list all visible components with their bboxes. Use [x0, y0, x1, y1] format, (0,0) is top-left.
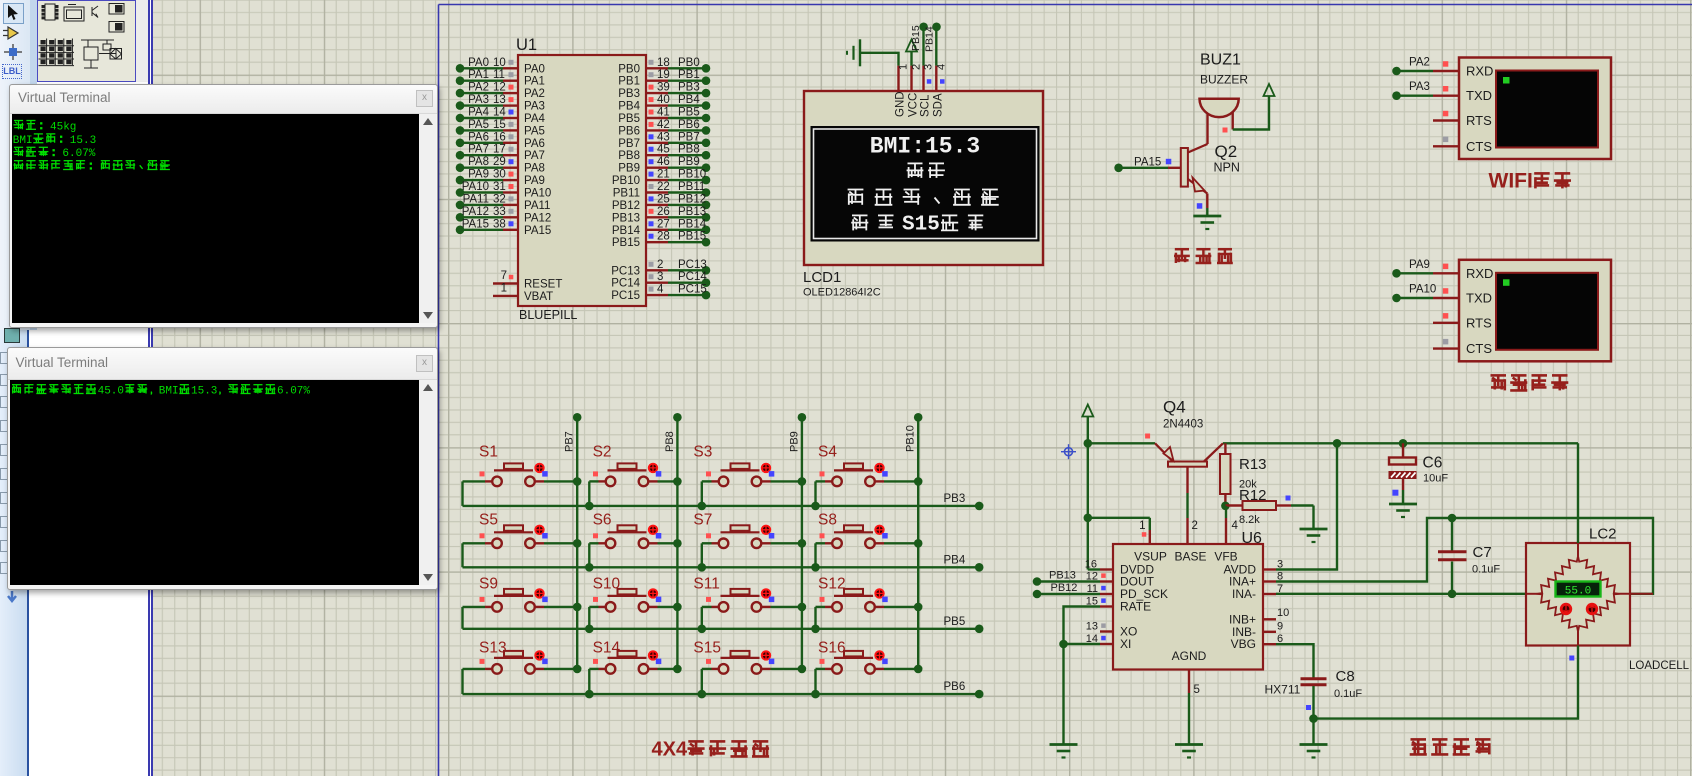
svg-text:PB5: PB5	[618, 113, 640, 125]
svg-text:PB4: PB4	[944, 554, 966, 566]
U6 pin 10 INB+	[1263, 607, 1289, 619]
svg-text:43: 43	[657, 131, 670, 143]
VFB pin 4 wire	[1226, 506, 1239, 544]
svg-text:15: 15	[493, 119, 506, 131]
LCD1 VCC power arrow	[906, 40, 917, 66]
svg-text:PA5: PA5	[468, 119, 489, 131]
pushbutton S6	[585, 512, 682, 572]
svg-text:VCC: VCC	[908, 93, 920, 117]
svg-text:17: 17	[493, 144, 506, 156]
svg-text:PA0: PA0	[524, 63, 545, 75]
pushbutton S15	[693, 640, 806, 699]
keypad column wire PB10	[905, 413, 923, 669]
svg-text:PA6: PA6	[524, 138, 545, 150]
svg-text:AGND: AGND	[1172, 649, 1207, 663]
capacitor C8 0.1uF	[1300, 668, 1363, 758]
svg-text:PA15: PA15	[524, 225, 551, 237]
svg-text:PB8: PB8	[678, 144, 700, 156]
origin marker	[1061, 444, 1076, 459]
svg-text:PC15: PC15	[678, 284, 707, 296]
pushbutton S8	[811, 512, 922, 572]
svg-text:19: 19	[657, 69, 670, 81]
svg-text:S13: S13	[479, 640, 507, 657]
svg-text:U6: U6	[1242, 530, 1263, 547]
pushbutton S10	[585, 576, 682, 634]
svg-text:LOADCELL: LOADCELL	[1629, 660, 1690, 672]
VCC rail	[1084, 439, 1579, 448]
svg-text:PC13: PC13	[611, 265, 640, 277]
svg-text:PA11: PA11	[463, 193, 489, 205]
svg-text:PA8: PA8	[524, 163, 545, 175]
toolbar icon: junction mode	[2, 44, 24, 60]
VCC vertical + VSUP pin 1	[1084, 443, 1150, 569]
svg-text:3: 3	[657, 271, 663, 283]
svg-text:PB10: PB10	[678, 169, 706, 181]
svg-text:PB1: PB1	[678, 69, 700, 81]
Q2 base wire PA15	[1114, 157, 1181, 173]
U6 pin 8 INA+ wire	[1263, 518, 1653, 594]
svg-text:55.0: 55.0	[1565, 586, 1591, 598]
label 蜂鸣器	[1174, 249, 1233, 263]
transistor Q2 NPN	[1181, 142, 1240, 194]
svg-text:SCL: SCL	[920, 94, 932, 117]
U1 pin 39 PB3 wire + label	[618, 82, 710, 101]
U1 pin 33 PA12 wire + label	[456, 206, 552, 225]
svg-text:PB7: PB7	[678, 131, 700, 143]
U1 pin 28 PB15 wire + label	[612, 231, 710, 250]
svg-text:32: 32	[493, 193, 506, 205]
svg-text:PB3: PB3	[618, 88, 640, 100]
svg-text:CTS: CTS	[1466, 139, 1492, 154]
svg-text:Q4: Q4	[1163, 398, 1186, 417]
LCD1 SCL wire to PB15	[910, 23, 928, 66]
svg-text:R12: R12	[1239, 487, 1267, 504]
buzzer BUZ1	[1200, 52, 1249, 145]
U6 pin 3 AVDD wire to rail	[1263, 439, 1341, 571]
svg-text:PA3: PA3	[468, 94, 489, 106]
chip U1 BLUEPILL body	[516, 36, 646, 322]
U6 pin 16 DVDD	[1085, 559, 1113, 571]
left toolbar strip	[0, 0, 30, 776]
svg-text:PB10: PB10	[612, 175, 640, 187]
svg-text:S6: S6	[593, 512, 612, 529]
resistor R13 20k	[1220, 443, 1267, 510]
svg-text:PA2: PA2	[468, 82, 489, 94]
svg-text:LCD1: LCD1	[803, 269, 841, 286]
svg-text:PA7: PA7	[524, 150, 545, 162]
svg-text:RTS: RTS	[1466, 113, 1492, 128]
canvas edge blue lines	[148, 0, 150, 776]
svg-text:BUZZER: BUZZER	[1200, 73, 1248, 87]
U1 pin 18 PB0 wire + label	[618, 57, 710, 76]
svg-text:INA-: INA-	[1232, 587, 1256, 601]
svg-text:PA8: PA8	[468, 156, 489, 168]
U6 pin 13 XO	[1086, 621, 1113, 633]
svg-text:S2: S2	[593, 444, 612, 461]
svg-text:S10: S10	[593, 576, 621, 593]
svg-text:PA11: PA11	[524, 200, 550, 212]
svg-text:BLUEPILL: BLUEPILL	[519, 308, 577, 322]
LCD1 pin 3 SCL	[920, 64, 935, 117]
svg-text:0.1uF: 0.1uF	[1472, 564, 1500, 576]
svg-text:PA15: PA15	[1134, 157, 1161, 169]
keypad row wire PB6	[463, 681, 984, 698]
svg-text:PB5: PB5	[944, 616, 966, 628]
U6 pin 9 INB-	[1263, 621, 1283, 633]
svg-text:PB13: PB13	[678, 206, 706, 218]
sheet border	[439, 5, 1692, 776]
preview thumbnails	[37, 0, 136, 82]
pushbutton S1	[463, 444, 582, 506]
svg-text:PB7: PB7	[618, 138, 640, 150]
svg-text:HX711: HX711	[1265, 683, 1301, 697]
pushbutton S13	[463, 640, 582, 695]
svg-text:RESET: RESET	[524, 279, 562, 291]
svg-text:8.2k: 8.2k	[1239, 514, 1260, 526]
serial module pin RTS	[1433, 313, 1492, 330]
svg-text:C8: C8	[1336, 668, 1355, 685]
svg-text:PA9: PA9	[524, 175, 545, 187]
U1 pin 26 PB13 wire + label	[612, 206, 710, 225]
svg-text:13: 13	[493, 94, 506, 106]
svg-text:RXD: RXD	[1466, 266, 1493, 281]
svg-text:12: 12	[493, 82, 506, 94]
U1 pin 14 PA4 wire + label	[456, 107, 546, 126]
svg-text:46: 46	[657, 156, 670, 168]
svg-text:S3: S3	[693, 444, 712, 461]
svg-text:PC14: PC14	[678, 271, 707, 283]
U6 pin 14 XI wire	[1059, 633, 1113, 648]
loadcell LC2 body	[1526, 526, 1690, 673]
svg-text:14: 14	[493, 107, 506, 119]
svg-text:15.3: 15.3	[70, 135, 96, 147]
U1 pin 10 PA0 wire + label	[456, 57, 545, 76]
svg-text:PB14: PB14	[924, 26, 936, 52]
svg-text:40: 40	[657, 94, 670, 106]
svg-text:PA9: PA9	[1409, 259, 1430, 271]
capacitor C7 0.1uF	[1438, 514, 1500, 598]
svg-text:PB7: PB7	[564, 431, 576, 452]
svg-text:28: 28	[657, 231, 670, 243]
svg-text:PC15: PC15	[611, 290, 640, 302]
svg-text:PB11: PB11	[678, 181, 705, 193]
svg-text:PB8: PB8	[664, 431, 676, 452]
svg-text:13: 13	[1086, 621, 1098, 633]
svg-text:PB0: PB0	[678, 57, 700, 69]
U6 pin 7 INA- wire	[1263, 583, 1527, 595]
svg-text:1: 1	[501, 283, 507, 295]
serial module box at WIFI串口	[1459, 58, 1611, 160]
svg-text:29: 29	[493, 156, 506, 168]
svg-text:SDA: SDA	[932, 93, 944, 117]
svg-text:S9: S9	[479, 576, 498, 593]
U6 pin 5 AGND to ground	[1175, 670, 1203, 758]
U1 pin 25 PB12 wire + label	[612, 193, 710, 212]
pushbutton S9	[463, 576, 582, 629]
svg-text:45.0: 45.0	[97, 386, 123, 398]
serial module pin TXD	[1392, 81, 1492, 103]
svg-text:PB9: PB9	[678, 156, 700, 168]
pushbutton S3	[693, 444, 806, 511]
U1 pin 12 PA2 wire + label	[456, 82, 545, 101]
U6 pin 12 DOUT wire PB13	[1033, 569, 1113, 586]
svg-text:PA10: PA10	[524, 188, 551, 200]
U1 pin 17 PA7 wire + label	[456, 144, 545, 163]
pushbutton S16	[811, 640, 922, 699]
preview panel	[37, 0, 136, 82]
LCD1 pin state squares	[927, 79, 945, 84]
svg-text:PA4: PA4	[524, 113, 545, 125]
pushbutton S11	[693, 576, 806, 634]
Virtual Terminal window at 9,84	[9, 84, 438, 328]
svg-text:PA3: PA3	[1409, 81, 1430, 93]
svg-text:S12: S12	[818, 576, 846, 593]
svg-text:PA12: PA12	[524, 212, 551, 224]
svg-text:PB4: PB4	[618, 101, 640, 113]
U6 pin 15 RATE wire to ground	[1050, 596, 1114, 758]
svg-text:11: 11	[1087, 583, 1098, 595]
svg-text:10uF: 10uF	[1423, 473, 1448, 485]
label 语音串口	[1491, 375, 1569, 390]
svg-text:PA6: PA6	[468, 131, 489, 143]
label 4X4矩阵键盘	[652, 738, 770, 760]
svg-text:PB8: PB8	[618, 150, 640, 162]
pushbutton S5	[463, 512, 582, 568]
svg-text:S15: S15	[693, 640, 721, 657]
Q4 base to U6 BASE pin 2	[1188, 467, 1198, 544]
toolbar icon: component mode	[2, 26, 24, 41]
keypad column wire PB7	[564, 413, 582, 669]
U1 pin 46 PB9 wire + label	[618, 156, 710, 175]
svg-text:PA7: PA7	[468, 144, 489, 156]
svg-text:PA2: PA2	[1409, 57, 1430, 69]
LCD1 pin 1 GND	[895, 64, 910, 117]
toolbar icon: cursor (selected)	[3, 3, 24, 24]
svg-text:PB6: PB6	[944, 681, 966, 693]
LCD1 text line 4	[851, 213, 983, 236]
svg-text:VSUP: VSUP	[1134, 550, 1167, 564]
svg-text:2N4403: 2N4403	[1163, 419, 1203, 431]
LC2 top wire from rail	[1577, 443, 1579, 543]
svg-text:12: 12	[1086, 571, 1098, 583]
bottom-left selector panel	[0, 330, 27, 776]
svg-text:31: 31	[493, 181, 506, 193]
U1 pin 3 PC14 wire + label	[611, 271, 710, 290]
svg-text:10: 10	[1277, 607, 1289, 619]
svg-text:PB1: PB1	[618, 76, 640, 88]
svg-text:PB11: PB11	[613, 188, 640, 200]
capacitor C6 10uF	[1389, 439, 1449, 517]
power terminal (VCC arrow)	[1082, 405, 1093, 444]
svg-text:U1: U1	[516, 36, 537, 54]
svg-text:PB10: PB10	[905, 425, 917, 452]
svg-text:PB12: PB12	[678, 193, 706, 205]
svg-text:PA15: PA15	[462, 218, 489, 230]
resistor R12 8.2k	[1225, 487, 1327, 542]
svg-text:VFB: VFB	[1214, 550, 1237, 564]
svg-text:11: 11	[493, 69, 505, 81]
svg-text:PB14: PB14	[678, 218, 707, 230]
U1 pin 32 PA11 wire + label	[456, 193, 551, 212]
LCD1 text line 3	[848, 190, 999, 205]
svg-text:45kg: 45kg	[50, 121, 76, 133]
svg-text:LC2: LC2	[1589, 526, 1617, 543]
svg-text:PC13: PC13	[678, 259, 707, 271]
svg-text:39: 39	[657, 82, 670, 94]
svg-text:4X4: 4X4	[652, 738, 688, 760]
U1 pin 22 PB11 wire + label	[613, 181, 711, 200]
svg-text:4: 4	[657, 284, 664, 296]
svg-text:RXD: RXD	[1466, 64, 1493, 79]
svg-text:TXD: TXD	[1466, 88, 1492, 103]
svg-text:PB15: PB15	[910, 25, 922, 51]
U1 pin 43 PB7 wire + label	[618, 131, 710, 150]
svg-text:BMI: BMI	[158, 386, 178, 398]
U6 pin 11 PD_SCK wire PB12	[1033, 582, 1113, 599]
svg-text:VBAT: VBAT	[524, 291, 553, 303]
U1 pin 45 PB8 wire + label	[618, 144, 710, 163]
svg-text:42: 42	[657, 119, 670, 131]
svg-text:PB0: PB0	[618, 63, 640, 75]
U1 pin 41 PB5 wire + label	[618, 107, 710, 126]
svg-text:PB12: PB12	[1051, 582, 1078, 594]
svg-text:PA10: PA10	[1409, 284, 1436, 296]
svg-text:4: 4	[1232, 520, 1239, 532]
pushbutton S14	[585, 640, 682, 699]
Virtual Terminal window at 6.5,347	[7, 347, 439, 590]
toolbar icon: teal box mode (visible)	[4, 328, 20, 343]
svg-text:BUZ1: BUZ1	[1200, 52, 1241, 69]
serial module pin RXD	[1392, 259, 1493, 281]
serial module pin CTS	[1433, 339, 1492, 356]
U1 pin 16 PA6 wire + label	[456, 131, 545, 150]
svg-text:30: 30	[493, 169, 506, 181]
U1 pin 4 PC15 wire + label	[611, 284, 710, 303]
svg-text:S15: S15	[902, 213, 940, 236]
svg-text:26: 26	[657, 206, 670, 218]
LCD1 screen	[811, 127, 1039, 242]
label WIFI串口	[1489, 169, 1572, 192]
svg-text:PB12: PB12	[612, 200, 640, 212]
svg-text:S8: S8	[818, 512, 837, 529]
pushbutton S4	[811, 444, 922, 511]
svg-text:S11: S11	[693, 576, 719, 593]
svg-text:PA1: PA1	[468, 69, 489, 81]
toolbar icon: teal box mode	[4, 328, 20, 343]
keypad column wire PB8	[664, 413, 682, 669]
LCD1 pin 4 SDA	[932, 64, 947, 117]
pan down-arrow icon	[3, 589, 21, 607]
svg-text:S4: S4	[818, 444, 837, 461]
U1 pin 15 PA5 wire + label	[456, 119, 545, 137]
svg-text:BMI: BMI	[13, 135, 33, 147]
U1 pin 27 PB14 wire + label	[612, 218, 710, 237]
svg-text:PA5: PA5	[524, 125, 545, 137]
serial module pin CTS	[1433, 137, 1492, 154]
svg-text:PB9: PB9	[788, 431, 800, 452]
Q2 emitter to ground	[1193, 194, 1221, 230]
svg-text:2: 2	[657, 259, 663, 271]
svg-text:OLED12864I2C: OLED12864I2C	[803, 287, 881, 299]
svg-text:15.3: 15.3	[191, 386, 217, 398]
svg-text:22: 22	[657, 181, 670, 193]
svg-text:R13: R13	[1239, 456, 1267, 473]
svg-text:GND: GND	[895, 91, 907, 117]
svg-text:RTS: RTS	[1466, 315, 1492, 330]
left panel background	[30, 0, 148, 776]
svg-text:TXD: TXD	[1466, 291, 1492, 306]
U1 pin 19 PB1 wire + label	[618, 69, 710, 88]
svg-text:RATE: RATE	[1120, 600, 1151, 614]
keypad column wire PB9	[788, 413, 806, 669]
svg-text:BASE: BASE	[1174, 550, 1206, 564]
LCD1 GND wire to ground	[847, 39, 899, 66]
svg-text:PA3: PA3	[524, 101, 545, 113]
svg-text:2: 2	[1192, 520, 1198, 532]
svg-text:7: 7	[501, 270, 507, 282]
svg-text:XI: XI	[1120, 637, 1131, 651]
toolbar icon: LBL	[2, 64, 22, 79]
svg-text:6.07%: 6.07%	[62, 148, 95, 160]
U1 pin 38 PA15 wire + label	[456, 218, 552, 237]
svg-text:38: 38	[493, 218, 506, 230]
U1 pin 11 PA1 wire + label	[456, 69, 545, 88]
U1 pin 29 PA8 wire + label	[456, 156, 545, 175]
svg-text:6.07%: 6.07%	[277, 386, 310, 398]
svg-text:CTS: CTS	[1466, 341, 1492, 356]
LCD1 text line BMI:15.3	[870, 134, 980, 160]
svg-text:PB14: PB14	[612, 225, 641, 237]
svg-text:PB13: PB13	[612, 212, 640, 224]
U1 pin 40 PB4 wire + label	[618, 94, 710, 113]
svg-text:41: 41	[657, 107, 670, 119]
U1 pin 13 PA3 wire + label	[456, 94, 545, 113]
svg-text:10: 10	[493, 57, 506, 69]
svg-text:PB6: PB6	[678, 119, 700, 131]
U1 pin 21 PB10 wire + label	[612, 169, 710, 188]
BUZ1 wire to power	[1223, 84, 1275, 133]
svg-text:16: 16	[493, 131, 506, 143]
svg-text:WIFI: WIFI	[1489, 169, 1533, 192]
svg-text:0.1uF: 0.1uF	[1334, 688, 1362, 700]
LCD1 pin 2 VCC	[908, 64, 923, 117]
svg-text:C6: C6	[1423, 455, 1443, 472]
serial module pin RXD	[1392, 57, 1493, 79]
svg-text:S16: S16	[818, 640, 846, 657]
svg-text:S5: S5	[479, 512, 498, 529]
U1 pin 2 PC13 wire + label	[611, 259, 710, 278]
svg-text:PA2: PA2	[524, 88, 545, 100]
svg-text:5: 5	[1194, 684, 1200, 696]
svg-text:PB3: PB3	[944, 493, 966, 505]
svg-text:PA10: PA10	[462, 181, 489, 193]
svg-text:PA4: PA4	[468, 107, 489, 119]
svg-text:33: 33	[493, 206, 506, 218]
svg-text:1: 1	[1139, 520, 1145, 532]
LCD1 SDA wire to PB14	[924, 23, 941, 66]
LC2 bottom wire to C8 ground net	[1314, 646, 1579, 719]
svg-text:PB13: PB13	[1049, 569, 1076, 581]
svg-text:PB3: PB3	[678, 82, 700, 94]
svg-text:PA9: PA9	[468, 169, 489, 181]
svg-text:27: 27	[657, 218, 670, 230]
svg-text:PB5: PB5	[678, 107, 700, 119]
U1 pin 42 PB6 wire + label	[618, 119, 710, 137]
svg-text:9: 9	[1277, 621, 1283, 633]
svg-text:S7: S7	[693, 512, 712, 529]
keypad row wire PB4	[463, 554, 984, 571]
svg-text:PB15: PB15	[612, 237, 640, 249]
